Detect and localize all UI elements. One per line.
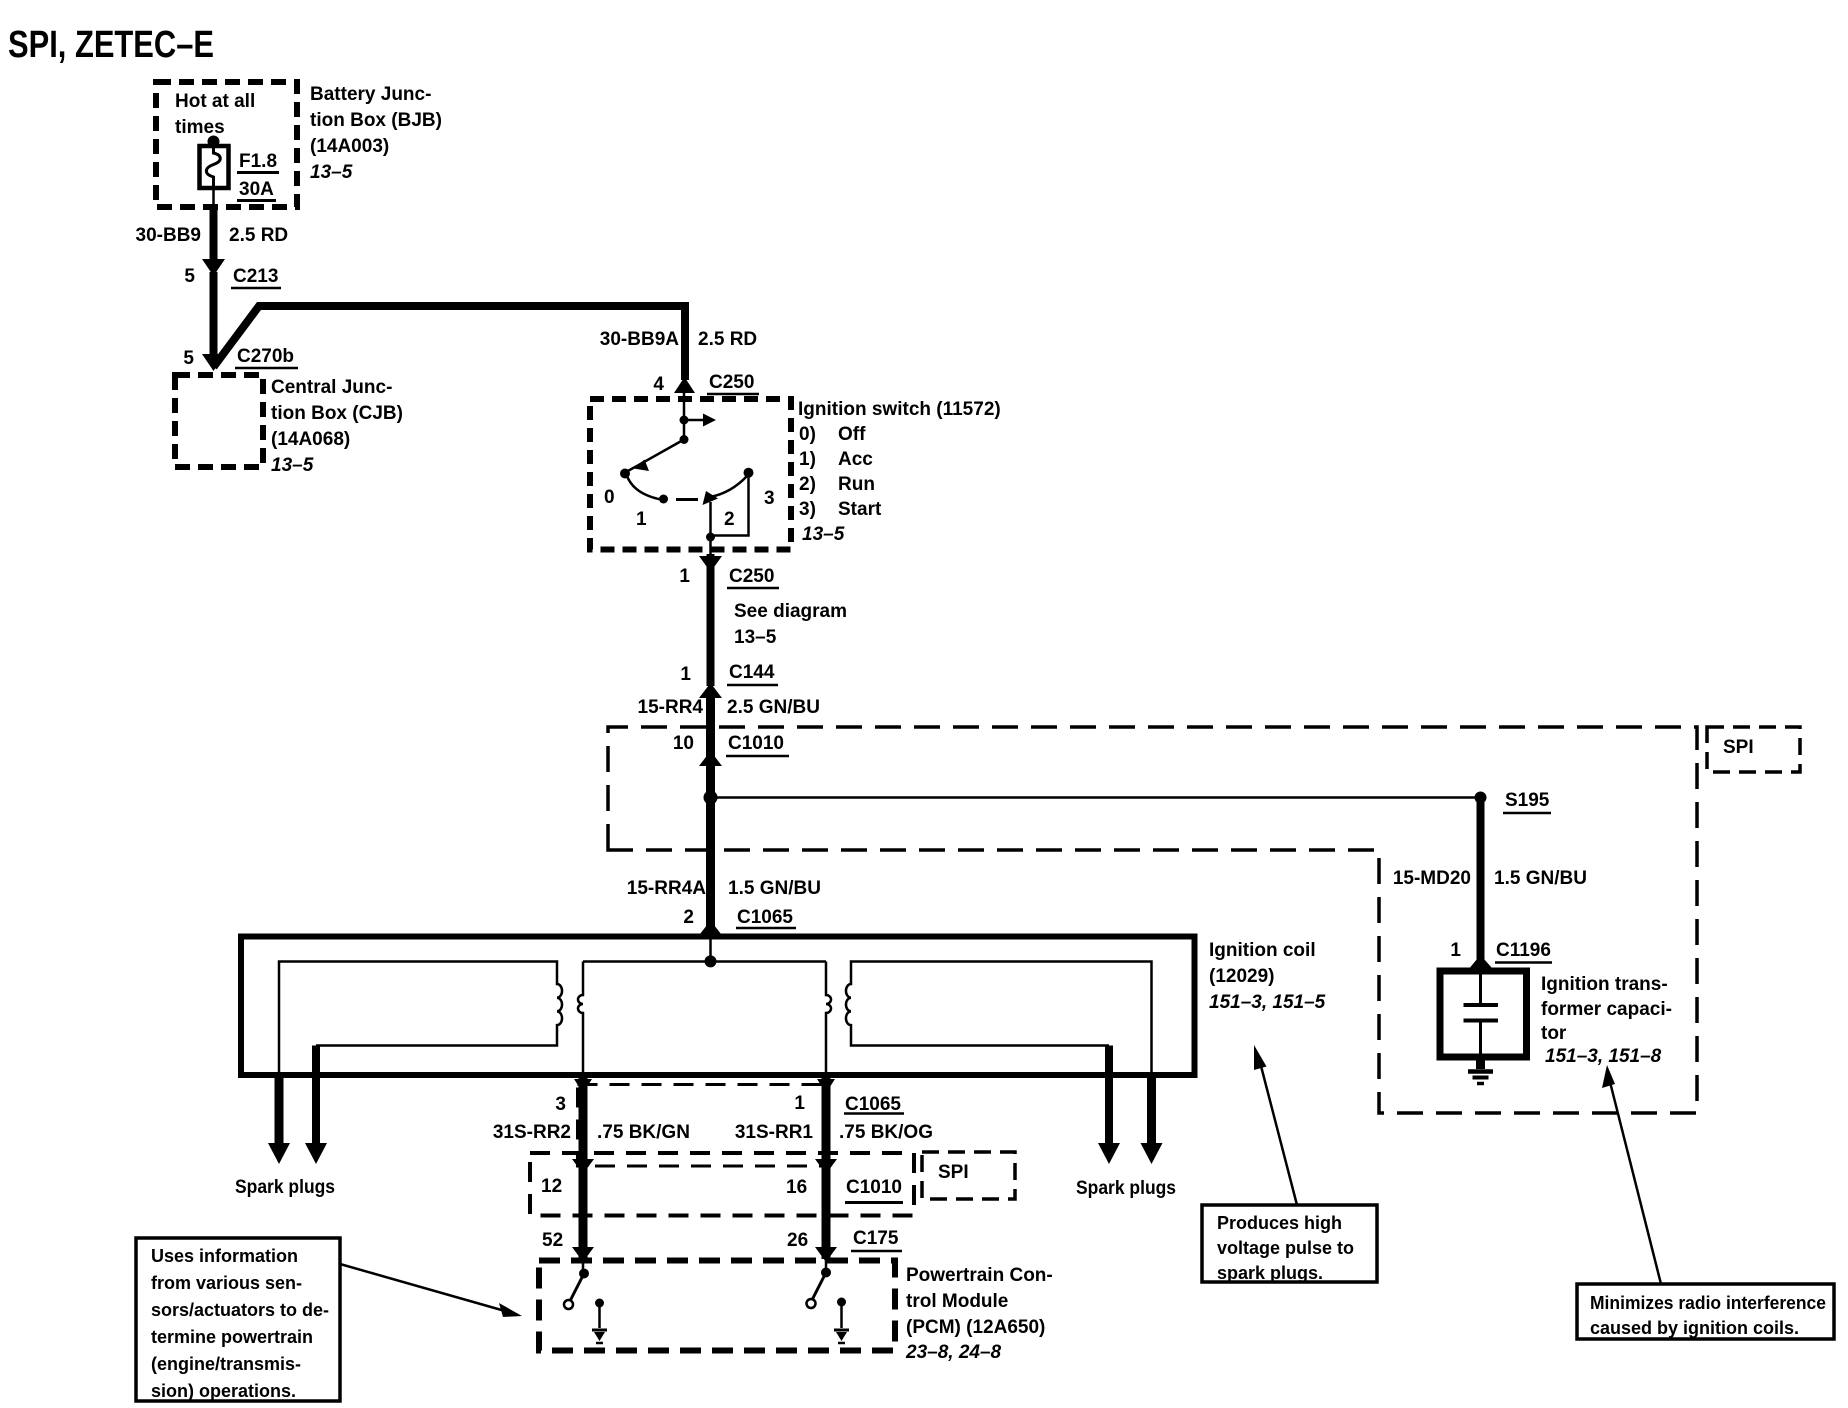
arc contact 2 to contact 3: [710, 476, 747, 497]
wire spark plug lead far right: [1147, 1075, 1156, 1147]
connector C250 arrow pin 4: [674, 377, 695, 393]
svg-text:0: 0: [604, 487, 615, 508]
svg-text:Ignition switch (11572): Ignition switch (11572): [798, 399, 1001, 420]
svg-text:3: 3: [764, 488, 775, 509]
svg-text:10: 10: [673, 733, 694, 754]
coil primary winding right: [826, 962, 831, 1077]
node contact 1: [659, 495, 668, 504]
svg-text:F1.8: F1.8: [239, 151, 277, 172]
coil primary winding left: [578, 962, 583, 1077]
svg-text:2.5 RD: 2.5 RD: [698, 329, 757, 350]
label Ignition switch (11572): [798, 399, 1001, 545]
ignition switch 11572 dashed outline: [590, 399, 791, 550]
label Powertrain Control Module (PCM) (12A650) 23-8, 24-8: [905, 1265, 1053, 1363]
svg-text:.75 BK/GN: .75 BK/GN: [597, 1122, 690, 1143]
node splice junction on main wire: [704, 791, 718, 805]
svg-text:16: 16: [786, 1177, 807, 1198]
svg-text:Acc: Acc: [838, 449, 873, 470]
arrow note to ignition coil: [1261, 1066, 1297, 1205]
svg-text:Spark plugs: Spark plugs: [235, 1177, 335, 1198]
contact 2 arrowhead: [703, 491, 719, 505]
svg-text:tion Box (CJB): tion Box (CJB): [271, 403, 403, 424]
switch branch arrow right: [684, 419, 703, 422]
note box minimizes radio interference: [1577, 1284, 1834, 1339]
node switch pivot: [680, 435, 689, 444]
svg-text:SPI: SPI: [1723, 737, 1754, 758]
svg-text:Battery Junc-: Battery Junc-: [310, 84, 431, 105]
svg-text:(PCM) (12A650): (PCM) (12A650): [906, 1317, 1045, 1338]
node coil feed junction: [705, 955, 717, 967]
svg-text:5: 5: [183, 348, 194, 369]
svg-text:1: 1: [794, 1093, 805, 1114]
node contact 0: [620, 469, 630, 479]
label Central Junction Box (CJB) (14A068) 13-5: [271, 377, 403, 476]
arrow note to PCM: [340, 1264, 505, 1311]
wire 31S-RR2 to PCM: [579, 1076, 588, 1259]
svg-text:from various sen-: from various sen-: [151, 1273, 302, 1293]
svg-text:30A: 30A: [239, 179, 274, 200]
svg-text:spark plugs.: spark plugs.: [1217, 1263, 1323, 1283]
svg-text:1.5 GN/BU: 1.5 GN/BU: [728, 878, 821, 899]
svg-text:Minimizes radio interference: Minimizes radio interference: [1590, 1293, 1826, 1313]
svg-text:Start: Start: [838, 499, 882, 520]
ground below capacitor: [1468, 1058, 1493, 1084]
svg-text:1.5 GN/BU: 1.5 GN/BU: [1494, 868, 1587, 889]
svg-text:Ignition coil: Ignition coil: [1209, 940, 1316, 961]
svg-text:C1010: C1010: [846, 1177, 902, 1198]
connector C1010 dashed box: [530, 1153, 914, 1216]
svg-text:2.5 RD: 2.5 RD: [229, 225, 288, 246]
svg-text:15-RR4: 15-RR4: [638, 697, 704, 718]
arrow note to capacitor: [1610, 1082, 1661, 1284]
label Ignition transformer capacitor 151-3, 151-8: [1541, 974, 1672, 1067]
svg-text:Ignition trans-: Ignition trans-: [1541, 974, 1668, 995]
svg-text:SPI: SPI: [938, 1162, 969, 1183]
connector C175 arrow pin 52: [572, 1247, 594, 1262]
svg-text:Hot at all: Hot at all: [175, 91, 255, 112]
wire to box edge: [709, 537, 712, 554]
svg-text:1: 1: [1450, 940, 1461, 961]
wire spark plug lead right: [1105, 1046, 1113, 1148]
svg-text:C1196: C1196: [1496, 940, 1551, 961]
connector C270b arrow pin 5: [202, 354, 225, 371]
svg-text:Spark plugs: Spark plugs: [1076, 1178, 1176, 1199]
svg-text:2): 2): [799, 474, 816, 495]
connector C1010 arrow pin 16: [815, 1159, 837, 1174]
svg-text:31S-RR2: 31S-RR2: [493, 1122, 571, 1143]
wire 31S-RR1 to PCM: [822, 1076, 831, 1259]
svg-text:See diagram: See diagram: [734, 601, 847, 622]
svg-text:13–5: 13–5: [802, 524, 845, 545]
wire to splice S195: [711, 796, 1481, 799]
svg-text:C250: C250: [709, 372, 754, 393]
svg-text:tor: tor: [1541, 1023, 1567, 1044]
wire into coil box: [709, 938, 712, 961]
svg-text:C1010: C1010: [728, 733, 784, 754]
wire from fuse to box edge: [212, 188, 215, 207]
svg-text:voltage pulse to: voltage pulse to: [1217, 1238, 1354, 1258]
svg-text:13–5: 13–5: [310, 162, 353, 183]
svg-text:2.5 GN/BU: 2.5 GN/BU: [727, 697, 820, 718]
svg-text:2: 2: [724, 509, 735, 530]
PCM pin 52 internal switch: [564, 1259, 589, 1309]
connector C144 arrow pin 1: [699, 683, 722, 698]
svg-text:31S-RR1: 31S-RR1: [735, 1122, 814, 1143]
svg-text:Central Junc-: Central Junc-: [271, 377, 392, 398]
node splice S195: [1475, 792, 1487, 804]
svg-text:sors/actuators to de-: sors/actuators to de-: [151, 1300, 329, 1320]
svg-text:.75 BK/OG: .75 BK/OG: [839, 1122, 933, 1143]
svg-text:C144: C144: [729, 662, 775, 683]
svg-text:(14A068): (14A068): [271, 429, 350, 450]
label Battery Junction Box (BJB) (14A003) 13-5: [310, 84, 442, 183]
PCM pin 26 internal switch: [807, 1259, 832, 1308]
svg-text:SPI, ZETEC–E: SPI, ZETEC–E: [8, 24, 214, 66]
wire switch output: [707, 554, 715, 686]
svg-text:4: 4: [653, 374, 664, 395]
svg-text:(12029): (12029): [1209, 966, 1275, 987]
connector C1196 arrow pin 1: [1470, 955, 1492, 968]
switch arm toward position 0: [627, 440, 684, 472]
svg-text:151–3, 151–8: 151–3, 151–8: [1545, 1046, 1662, 1067]
label Ignition coil (12029) 151-3, 151-5: [1209, 940, 1326, 1013]
wire spark plug lead left: [312, 1046, 320, 1148]
svg-text:30-BB9: 30-BB9: [136, 225, 201, 246]
connector C1010 arrow pin 12: [572, 1159, 594, 1174]
wire 30-BB9 2.5 RD: [210, 205, 218, 266]
svg-text:1: 1: [636, 509, 647, 530]
svg-text:12: 12: [541, 1176, 562, 1197]
svg-text:former capaci-: former capaci-: [1541, 999, 1672, 1020]
svg-text:(14A003): (14A003): [310, 136, 389, 157]
svg-text:52: 52: [542, 1230, 563, 1251]
svg-text:2: 2: [683, 907, 694, 928]
svg-text:caused by ignition coils.: caused by ignition coils.: [1590, 1318, 1799, 1338]
battery junction box BJB dashed outline: [156, 82, 297, 207]
svg-text:termine powertrain: termine powertrain: [151, 1327, 313, 1347]
svg-text:Run: Run: [838, 474, 875, 495]
svg-text:S195: S195: [1505, 790, 1550, 811]
wire spark plug lead far left: [275, 1075, 284, 1147]
node switch feed junction: [680, 416, 689, 425]
wire contact 2 down: [709, 502, 712, 538]
wire 15-RR4 2.5 GN/BU: [706, 690, 715, 938]
svg-text:Off: Off: [838, 424, 866, 445]
connector C1065 arrow pin 2: [700, 921, 721, 935]
svg-text:C270b: C270b: [237, 346, 294, 367]
arc contact 0 to contact 1: [627, 476, 661, 500]
node switch output junction: [706, 533, 715, 542]
svg-text:Produces high: Produces high: [1217, 1213, 1342, 1233]
svg-text:(engine/transmis-: (engine/transmis-: [151, 1354, 301, 1374]
svg-text:3: 3: [555, 1094, 566, 1115]
svg-text:C175: C175: [853, 1228, 899, 1249]
connector C1065 arrow pin 1: [817, 1079, 835, 1093]
connector C1065 dashed box: [578, 1085, 828, 1167]
svg-text:tion Box (BJB): tion Box (BJB): [310, 110, 442, 131]
wire C213 to C270b: [210, 272, 218, 364]
coil secondary winding left: [279, 962, 562, 1078]
wire coil primary top bus: [583, 960, 826, 963]
capacitor C1196 ignition transformer capacitor: [1440, 971, 1527, 1057]
svg-text:30-BB9A: 30-BB9A: [600, 329, 679, 350]
svg-text:26: 26: [787, 1230, 808, 1251]
svg-text:1: 1: [680, 664, 691, 685]
svg-text:C1065: C1065: [845, 1094, 901, 1115]
node contact 3: [744, 468, 754, 478]
connector C213 arrow pin 5: [202, 259, 225, 276]
svg-text:0): 0): [799, 424, 816, 445]
svg-text:15-RR4A: 15-RR4A: [627, 878, 706, 899]
connector C1010 arrow pin 10: [699, 751, 722, 766]
svg-text:5: 5: [184, 266, 195, 287]
svg-text:151–3, 151–5: 151–3, 151–5: [1209, 992, 1326, 1013]
note box uses information: [136, 1238, 340, 1401]
svg-text:1): 1): [799, 449, 816, 470]
PCM internal ground right: [834, 1298, 849, 1344]
wire 15-MD20 1.5 GN/BU: [1477, 798, 1485, 960]
svg-text:trol Module: trol Module: [906, 1291, 1008, 1312]
SPI label box top right: [1707, 727, 1800, 772]
svg-text:15-MD20: 15-MD20: [1393, 868, 1471, 889]
central junction box CJB dashed outline: [175, 375, 263, 467]
wire contact 3 down and left: [711, 473, 749, 536]
connector C250 arrow pin 1: [699, 556, 722, 572]
note box produces high voltage: [1202, 1205, 1377, 1283]
svg-text:23–8, 24–8: 23–8, 24–8: [905, 1342, 1002, 1363]
PCM internal ground left: [592, 1299, 607, 1344]
connector C175 arrow pin 26: [815, 1247, 837, 1262]
svg-text:C1065: C1065: [737, 907, 793, 928]
svg-text:C250: C250: [729, 566, 774, 587]
svg-text:3): 3): [799, 499, 816, 520]
fuse F1.8 30A: [200, 136, 229, 189]
svg-text:C213: C213: [233, 266, 278, 287]
powertrain control module PCM dashed outline: [539, 1261, 895, 1351]
SPI label box lower: [922, 1152, 1015, 1199]
arc dash between contact 1 and 2: [676, 498, 698, 501]
ignition coil 12029 outer box: [241, 937, 1195, 1076]
wire into switch: [683, 392, 686, 440]
svg-text:sion) operations.: sion) operations.: [151, 1381, 296, 1401]
SPI region dashed boundary: [608, 727, 1697, 1113]
svg-text:1: 1: [679, 566, 690, 587]
svg-text:Uses information: Uses information: [151, 1246, 298, 1266]
svg-text:13–5: 13–5: [271, 455, 314, 476]
svg-text:Powertrain Con-: Powertrain Con-: [906, 1265, 1053, 1286]
svg-text:13–5: 13–5: [734, 627, 777, 648]
connector C1065 arrow pin 3: [574, 1079, 592, 1093]
coil secondary winding right: [846, 962, 1152, 1078]
svg-text:times: times: [175, 117, 225, 138]
wire branch from C270b up to ignition switch (30-BB9A): [214, 306, 686, 380]
